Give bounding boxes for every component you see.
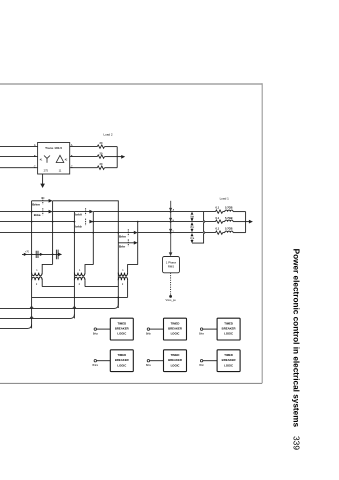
breaker brkb contact dash (M2 row 2 on phase B) xyxy=(85,219,87,226)
RMS tap arrowhead onto phase B xyxy=(169,218,172,221)
wire phase A M1 to M2 xyxy=(53,211,75,213)
wire T2 secondary down xyxy=(84,280,86,286)
inductor load1 LC xyxy=(223,231,233,233)
transformer T2 winding 2 xyxy=(74,277,85,280)
breaker brkA contact dash xyxy=(85,208,87,215)
breaker Brkm contact dash xyxy=(41,197,44,204)
svg-text:5.7GB: 5.7GB xyxy=(225,205,233,209)
svg-text:Load 2: Load 2 xyxy=(103,132,113,136)
load2 output arrow xyxy=(117,155,125,159)
node M1 left bus / phase A xyxy=(31,211,33,213)
breaker module M3 left bus xyxy=(117,212,119,308)
node M1 right bus / phase B xyxy=(52,221,54,223)
svg-text:LOGIC: LOGIC xyxy=(224,363,233,367)
transformer T1 feed jog xyxy=(42,264,52,272)
voltmeter arrow Vab xyxy=(190,212,195,222)
wire phase A M2 to load1 xyxy=(93,211,215,213)
transformer T3 feed jog xyxy=(128,265,138,273)
svg-text:Vrms_pu: Vrms_pu xyxy=(165,298,176,302)
transformer T1 winding 1 xyxy=(32,273,43,276)
transformer T2 winding 1 xyxy=(74,273,85,276)
svg-text:BREAKER: BREAKER xyxy=(115,327,129,331)
svg-text:2: 2 xyxy=(79,283,81,286)
RMS tap arrowhead onto phase C xyxy=(169,229,172,232)
breaker Brka wire (M1 row 2) xyxy=(32,211,51,213)
svg-text:1: 1 xyxy=(36,269,38,272)
resistor load2 RA xyxy=(97,145,104,148)
resistor load1 RB xyxy=(216,220,223,223)
breaker Brkr contact dash xyxy=(127,239,129,246)
svg-text:Brkb: Brkb xyxy=(146,332,152,335)
wire source phase B to transformer xyxy=(0,156,38,158)
svg-text:BREAKER: BREAKER xyxy=(168,358,182,362)
wire phase B M2 to load1 xyxy=(93,221,215,223)
capacitor branch arrowhead 1 xyxy=(24,253,27,256)
wire T1 secondary down xyxy=(41,280,43,286)
ground arrow xyxy=(40,184,45,188)
svg-text:RMS: RMS xyxy=(168,264,174,268)
svg-text:Brks: Brks xyxy=(146,364,152,367)
wire transformer A to load2 resistor xyxy=(70,146,98,148)
transformer T2 feed jog xyxy=(85,265,93,273)
svg-text:BREAKER: BREAKER xyxy=(168,327,182,331)
wire phase A from page edge xyxy=(0,211,32,213)
svg-text:LOGIC: LOGIC xyxy=(224,332,233,336)
voltmeter reference loop wire xyxy=(192,212,204,244)
load2 bus xyxy=(116,147,118,168)
breaker module M2 left bus xyxy=(73,212,75,319)
breaker Brkn arrowhead xyxy=(134,231,138,235)
resistor load1 RC xyxy=(216,231,223,234)
svg-text:Brka: Brka xyxy=(93,332,99,335)
svg-text:Brkr: Brkr xyxy=(119,245,126,249)
resistor load1 RA xyxy=(216,210,223,213)
wire T1 secondary to M2 bus xyxy=(42,286,74,288)
wire load2 RB to bus xyxy=(105,156,118,158)
svg-text:B: B xyxy=(34,154,36,158)
wire phase C M3 to load1 xyxy=(138,232,216,234)
secondary feeder wire to page edge (phase b) xyxy=(0,314,74,318)
svg-text:Brkm: Brkm xyxy=(93,364,99,367)
breaker Brka contact dash xyxy=(42,208,44,215)
load1 output arrow xyxy=(246,220,253,224)
svg-text:TIMED: TIMED xyxy=(224,321,233,325)
svg-text:2: 2 xyxy=(36,283,38,286)
svg-text:TIMED: TIMED xyxy=(171,321,180,325)
svg-text:Load 1: Load 1 xyxy=(220,196,230,200)
inductor load1 LB xyxy=(223,220,233,222)
svg-text:20: 20 xyxy=(100,162,103,166)
breaker Brkn wire (M3 row 1) xyxy=(118,232,135,234)
wire phase B from page edge xyxy=(0,221,74,223)
node M2 right bus / phase B xyxy=(92,221,94,223)
node RMS tap / phase C xyxy=(170,232,172,234)
wire source phase A to transformer xyxy=(0,146,38,148)
svg-text:1: 1 xyxy=(122,269,124,272)
figure frame bottom rule xyxy=(0,382,262,384)
wire hop bus1 over feeder c xyxy=(30,307,33,308)
wire hop loop over phase B xyxy=(204,220,205,223)
wire M1 row1 output to jog xyxy=(53,201,119,212)
wire phase C from page edge xyxy=(0,232,118,234)
capacitor branch arrowhead 3 xyxy=(59,253,62,256)
svg-text:LOGIC: LOGIC xyxy=(117,363,126,367)
breaker brkb arrowhead xyxy=(89,220,93,224)
wire load2 RC to bus xyxy=(105,167,118,169)
breaker module M1 right bus xyxy=(52,201,54,265)
svg-text:Brkm: Brkm xyxy=(32,203,40,207)
transformer T3 winding 2 xyxy=(118,277,127,280)
node M2 right bus / phase C xyxy=(92,232,94,234)
breaker Brkr wire (M3 row 2) xyxy=(118,242,135,244)
svg-text:20: 20 xyxy=(100,151,103,155)
timed breaker logic block 3 (row1 col3) xyxy=(199,318,240,340)
svg-text:275: 275 xyxy=(44,168,49,172)
node M1 left bus / phase B xyxy=(31,221,33,223)
breaker brkA wire (M2 row 1) xyxy=(74,211,91,213)
breaker Brkm arrowhead xyxy=(49,199,53,203)
svg-text:Power electronic control in el: Power electronic control in electrical s… xyxy=(291,249,300,428)
wire transformer C to load2 resistor xyxy=(70,167,98,169)
ground stem of transformer star point xyxy=(42,174,44,184)
node cap branch / M1 right bus xyxy=(52,254,54,256)
node cap branch / M1 left bus xyxy=(31,254,33,256)
svg-text:0.1: 0.1 xyxy=(215,216,219,220)
wire load1 C to bus xyxy=(233,232,246,234)
breaker brkA arrowhead xyxy=(89,210,93,214)
voltmeter arrow Vbc xyxy=(190,222,195,232)
breaker Brkr arrowhead xyxy=(134,241,138,245)
svg-text:TIMED: TIMED xyxy=(117,321,126,325)
1 Phase RMS block xyxy=(163,257,180,273)
wire T2 secondary to M3 bus xyxy=(85,286,118,288)
svg-text:TIMED: TIMED xyxy=(117,353,126,357)
capacitor branch wire xyxy=(22,253,62,255)
node b2 / M3 bus xyxy=(117,297,119,299)
svg-text:1: 1 xyxy=(79,269,81,272)
svg-text:20: 20 xyxy=(100,141,103,145)
breaker module M2 right bus xyxy=(92,212,94,265)
resistor load2 RC xyxy=(97,166,104,169)
wire load1 B to bus xyxy=(233,221,246,223)
svg-text:brkA: brkA xyxy=(75,212,83,216)
svg-text:Brkn: Brkn xyxy=(119,234,126,238)
secondary feeder wire to page edge (phase c) xyxy=(0,297,118,308)
svg-text:339: 339 xyxy=(291,436,300,450)
inductor load1 LA xyxy=(223,210,233,212)
figure frame right rule xyxy=(261,83,263,383)
node M2 left bus / phase C xyxy=(74,232,76,234)
secondary feeder wire to page edge (phase a) xyxy=(0,324,32,328)
wire source phase C to transformer xyxy=(0,167,38,169)
figure frame top rule xyxy=(0,83,262,85)
svg-text:Vab: Vab xyxy=(190,215,195,218)
node RMS tap / phase A xyxy=(170,211,172,213)
timed breaker logic block 4 (row2 col1) xyxy=(93,350,134,372)
transformer T100 delta symbol xyxy=(56,155,64,162)
svg-text:LOGIC: LOGIC xyxy=(171,332,180,336)
svg-text:BREAKER: BREAKER xyxy=(222,358,236,362)
breaker Brkn contact dash xyxy=(127,229,129,236)
wire hop bus1 over feeder b xyxy=(30,317,33,318)
svg-text:5.7GB: 5.7GB xyxy=(225,227,233,231)
transformer T100 box xyxy=(38,143,70,175)
wire hop loop over phase C xyxy=(204,231,205,234)
node RMS tap / phase B xyxy=(170,221,172,223)
breaker Brkm wire (M1 row 1) xyxy=(32,200,51,202)
load1 bus xyxy=(245,212,247,233)
wire transformer B to load2 resistor xyxy=(70,156,98,158)
RMS tap arrowhead xyxy=(169,252,173,256)
RMS measurement tap line xyxy=(170,201,172,254)
timed breaker logic block 1 (row1 col1) xyxy=(93,318,133,340)
timed breaker logic block 6 (row2 col3) xyxy=(199,350,240,372)
svg-text:5.7GB: 5.7GB xyxy=(225,216,233,220)
svg-text:0.1: 0.1 xyxy=(215,205,219,209)
svg-text:Brkn: Brkn xyxy=(199,332,205,335)
wire load1 A to bus xyxy=(233,211,246,213)
svg-text:0.1: 0.1 xyxy=(215,227,219,231)
svg-text:Trans 100-5: Trans 100-5 xyxy=(45,146,62,150)
wire load2 RA to bus xyxy=(105,146,118,148)
svg-text:BREAKER: BREAKER xyxy=(115,358,129,362)
transformer T1 winding 2 xyxy=(32,277,43,280)
svg-text:TIMED: TIMED xyxy=(171,353,180,357)
breaker Brka arrowhead xyxy=(49,210,53,214)
voltmeter arrow Vca xyxy=(190,233,195,243)
svg-text:LOGIC: LOGIC xyxy=(171,363,180,367)
node M3 left bus / phase C xyxy=(117,232,119,234)
node M3 right bus / phase B xyxy=(137,221,139,223)
svg-text:Brka: Brka xyxy=(34,213,41,217)
svg-text:B: B xyxy=(71,154,73,158)
svg-text:LOGIC: LOGIC xyxy=(117,332,126,336)
wire hop M2 bus over feeder c xyxy=(73,307,76,309)
svg-text:+70: +70 xyxy=(25,252,30,254)
svg-text:Brkr: Brkr xyxy=(199,364,204,367)
timed breaker logic block 5 (row2 col2) xyxy=(146,350,186,372)
transformer T3 winding 1 xyxy=(118,273,127,276)
svg-text:TIMED: TIMED xyxy=(224,353,233,357)
timed breaker logic block 2 (row1 col2) xyxy=(146,318,187,340)
wire T3 secondary down xyxy=(127,280,129,297)
transformer T100 wye symbol xyxy=(44,156,50,163)
capacitor C2 plates xyxy=(56,250,58,260)
svg-text:A: A xyxy=(34,143,36,147)
svg-text:Vca: Vca xyxy=(190,237,195,240)
capacitor branch arrowhead 2 xyxy=(40,253,43,256)
svg-text:brkb: brkb xyxy=(75,225,82,229)
svg-text:BREAKER: BREAKER xyxy=(222,327,236,331)
RMS output dashed signal wire xyxy=(170,273,172,295)
resistor load2 RB xyxy=(97,155,104,158)
RMS output node dot xyxy=(169,295,172,298)
RMS tap arrowhead onto phase A xyxy=(169,208,172,211)
breaker module M3 right bus xyxy=(137,222,139,265)
secondary bus wire b2 xyxy=(32,296,128,298)
breaker module M1 left bus xyxy=(31,201,33,329)
svg-text:C: C xyxy=(34,165,36,169)
svg-text:2: 2 xyxy=(122,283,124,286)
node M2 left bus / phase B xyxy=(74,221,76,223)
capacitor C1 plates xyxy=(36,251,38,258)
